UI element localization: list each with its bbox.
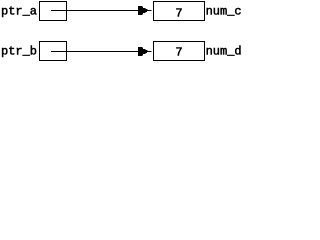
pointer box ptr_a [40,2,67,21]
wire from ptr_b box to arrowhead [51,51,141,53]
svg-text:ptr_b: ptr_b [1,45,37,59]
svg-text:7: 7 [175,7,182,21]
arrowhead into num_d box [138,47,152,56]
arrowhead into num_c box [138,6,152,15]
value box num_d [154,42,205,61]
svg-text:num_c: num_c [206,5,242,19]
value box num_c [154,2,205,21]
wire from ptr_a box to arrowhead [51,10,141,12]
pointer box ptr_b [40,42,67,61]
svg-text:num_d: num_d [206,45,242,59]
svg-text:7: 7 [175,46,182,60]
svg-text:ptr_a: ptr_a [1,5,37,19]
